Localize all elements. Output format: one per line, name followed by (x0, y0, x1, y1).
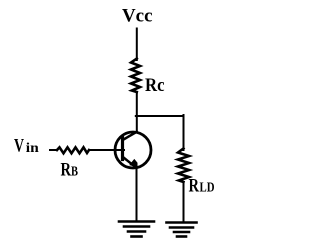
wire Rc to collector (136, 92, 138, 132)
svg-text:Vcc: Vcc (122, 6, 153, 27)
ground left (119, 222, 154, 237)
svg-text:LD: LD (200, 181, 215, 196)
ground right (167, 223, 197, 237)
transistor Q1 emitter arrow (130, 160, 136, 166)
label R_B (61, 160, 79, 181)
transistor Q1 collector stroke (124, 132, 137, 140)
label Rc (145, 75, 165, 96)
svg-text:R: R (61, 160, 72, 181)
label R_LD (189, 176, 215, 197)
resistor R_C (131, 59, 140, 93)
node Vcc label (122, 6, 153, 27)
svg-text:in: in (26, 141, 39, 156)
transistor Q1 emitter stroke (124, 158, 136, 168)
wire branch down to RLD (183, 115, 185, 150)
transistor Q1 base bar (121, 138, 124, 160)
resistor R_B (57, 147, 89, 153)
wire Vcc to Rc (136, 29, 138, 61)
svg-text:R: R (189, 176, 200, 197)
transistor Q1 circle (115, 132, 151, 168)
wire RLD to ground (183, 182, 185, 222)
wire RB to base (89, 149, 124, 151)
svg-text:Rc: Rc (145, 75, 165, 96)
wire Vin to RB (50, 149, 57, 151)
svg-text:B: B (71, 165, 78, 180)
resistor R_LD (178, 149, 189, 183)
wire collector branch horizontal (136, 115, 184, 117)
node Vin label (14, 136, 39, 157)
svg-text:V: V (14, 136, 24, 157)
wire emitter to ground (136, 167, 138, 222)
